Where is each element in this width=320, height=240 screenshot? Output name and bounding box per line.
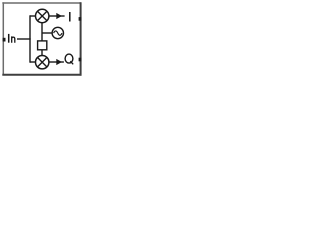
- wire square to bottom mixer: [41, 50, 43, 56]
- phase shift block (square): [38, 41, 47, 50]
- block border left: [2, 2, 4, 75]
- mixer M1 (top) circle: [36, 9, 49, 22]
- label I: [69, 12, 71, 22]
- mixer M2 cross: [37, 57, 47, 67]
- wire trunk vertical: [29, 15, 31, 62]
- output port I: [79, 17, 82, 21]
- arrowhead I: [56, 13, 62, 19]
- mixer M1 cross: [37, 11, 47, 21]
- wire trunk to bottom mixer: [30, 61, 36, 63]
- arrowhead Q: [56, 59, 62, 65]
- block border top: [2, 2, 81, 4]
- label In: [9, 34, 15, 43]
- label Q: [65, 54, 73, 64]
- wire trunk to top mixer: [30, 15, 36, 17]
- block border bottom (shadowed): [2, 74, 81, 76]
- wire In to trunk junction: [17, 38, 31, 40]
- output port Q: [79, 58, 82, 62]
- wire M2 output: [49, 61, 64, 63]
- oscillator U1 circle: [52, 27, 63, 38]
- wire M1 output: [49, 15, 65, 17]
- wire M1 to LO junction: [41, 23, 43, 41]
- input port In: [3, 38, 6, 42]
- mixer M2 (bottom) circle: [36, 56, 49, 69]
- wire oscillator to junction: [42, 32, 53, 34]
- oscillator sine wave: [54, 31, 62, 35]
- block border right (shadowed): [80, 2, 82, 75]
